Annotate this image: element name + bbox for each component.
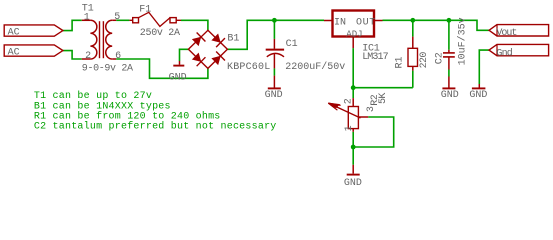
svg-text:LM317: LM317 bbox=[362, 52, 388, 63]
svg-text:R1 can be from 120 to 240 ohms: R1 can be from 120 to 240 ohms bbox=[34, 111, 221, 123]
svg-text:GND: GND bbox=[469, 90, 487, 101]
svg-text:Vout: Vout bbox=[496, 28, 516, 39]
svg-text:GND: GND bbox=[441, 90, 459, 101]
svg-text:C1: C1 bbox=[286, 39, 298, 50]
svg-text:2200uF/50v: 2200uF/50v bbox=[285, 61, 345, 73]
svg-text:2: 2 bbox=[344, 98, 355, 104]
svg-text:6: 6 bbox=[115, 51, 121, 62]
svg-text:OUT: OUT bbox=[356, 17, 376, 28]
svg-text:IN: IN bbox=[334, 17, 346, 28]
svg-text:AC: AC bbox=[8, 47, 20, 58]
svg-text:Gnd: Gnd bbox=[496, 47, 512, 59]
svg-text:B1 can be 1N4XXX types: B1 can be 1N4XXX types bbox=[34, 100, 171, 112]
svg-text:C2: C2 bbox=[434, 52, 445, 64]
svg-text:GND: GND bbox=[169, 72, 187, 83]
svg-text:250v 2A: 250v 2A bbox=[140, 28, 180, 39]
svg-text:3: 3 bbox=[366, 106, 377, 112]
svg-text:AC: AC bbox=[8, 27, 20, 38]
svg-text:ADJ: ADJ bbox=[346, 29, 362, 39]
svg-text:R1: R1 bbox=[395, 56, 406, 68]
svg-text:T1 can be up to 27v: T1 can be up to 27v bbox=[34, 90, 152, 102]
svg-text:2: 2 bbox=[85, 51, 91, 62]
svg-text:9-0-9v 2A: 9-0-9v 2A bbox=[82, 63, 133, 74]
svg-text:1: 1 bbox=[84, 12, 90, 23]
svg-text:1: 1 bbox=[344, 125, 355, 131]
svg-text:C2 tantalum preferred but not: C2 tantalum preferred but not necessary bbox=[34, 121, 277, 133]
svg-text:5: 5 bbox=[114, 12, 120, 23]
svg-text:5K: 5K bbox=[378, 93, 389, 104]
svg-text:B1: B1 bbox=[227, 33, 239, 44]
svg-text:F1: F1 bbox=[139, 5, 151, 16]
svg-text:220: 220 bbox=[419, 52, 430, 69]
svg-text:GND: GND bbox=[344, 178, 362, 189]
svg-text:KBPC60L: KBPC60L bbox=[227, 62, 270, 73]
svg-text:GND: GND bbox=[265, 90, 283, 101]
svg-text:10uF/35v: 10uF/35v bbox=[456, 17, 468, 65]
